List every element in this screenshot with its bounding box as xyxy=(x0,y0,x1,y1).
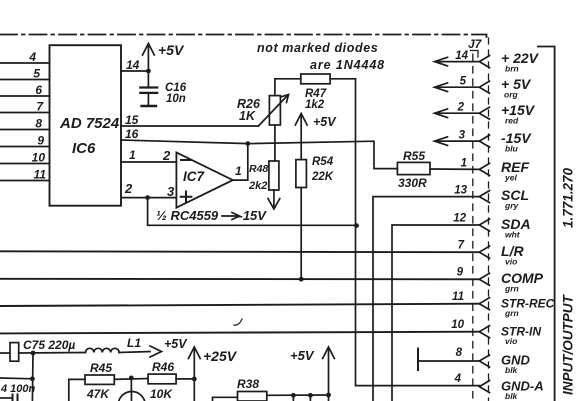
svg-text:R54: R54 xyxy=(312,156,334,168)
svg-text:4: 4 xyxy=(454,373,462,385)
svg-text:15: 15 xyxy=(125,113,139,127)
connector J7 dashed outline right xyxy=(488,38,490,401)
svg-text:C75 220µ: C75 220µ xyxy=(23,338,75,352)
svg-text:+5V: +5V xyxy=(290,348,315,363)
svg-text:1.771.270: 1.771.270 xyxy=(561,167,576,228)
wire data bus input pin6 xyxy=(0,95,50,97)
capacitor C75 electrolytic body xyxy=(10,343,19,362)
svg-text:2: 2 xyxy=(457,102,465,114)
resistor R48 xyxy=(269,161,279,190)
pen squiggle xyxy=(234,319,242,325)
J7 pin3 contact chevron xyxy=(479,135,489,147)
svg-text:R48: R48 xyxy=(249,163,268,175)
svg-text:13: 13 xyxy=(454,185,467,197)
power +5V arrow bottom xyxy=(328,349,330,401)
node junction 100n/vertical xyxy=(30,376,35,381)
node junction feedback/output xyxy=(245,141,250,146)
J7 pin14 contact chevron xyxy=(479,56,489,68)
node junction R54/COMP xyxy=(299,277,304,282)
svg-text:7: 7 xyxy=(458,240,465,252)
svg-text:12: 12 xyxy=(453,213,466,225)
node junction stub1 xyxy=(291,393,296,398)
node junction pin14/+5V/C16 xyxy=(146,69,151,74)
resistor R47 xyxy=(301,74,330,84)
J7 pin2 contact chevron xyxy=(479,107,489,119)
transistor Q circle xyxy=(118,392,145,401)
svg-text:11: 11 xyxy=(452,291,464,303)
wire R38 right to +5V xyxy=(267,394,329,396)
power +5V arrow above R54 xyxy=(300,115,302,160)
inductor L1 xyxy=(86,348,120,352)
wire L1 to +5V arrow xyxy=(119,352,150,353)
svg-text:3: 3 xyxy=(459,130,466,142)
svg-text:grn: grn xyxy=(504,284,519,294)
wire IC6 pin15 to R26 wiper xyxy=(121,125,258,127)
J7 pin9 contact chevron xyxy=(479,273,489,285)
svg-text:1: 1 xyxy=(235,164,242,178)
wire COMP bus line xyxy=(0,278,479,281)
power +5V arrow above C16 xyxy=(147,45,149,71)
wire GND stub with T-bar xyxy=(418,360,479,362)
J7 pin13 contact chevron xyxy=(479,191,489,203)
J7 pin5 +5V wire with arrow xyxy=(436,86,479,88)
J7 pin8 contact chevron xyxy=(479,355,489,367)
ground bar below C16 xyxy=(142,105,157,107)
power -15V arrow below R48 xyxy=(273,190,275,207)
capacitor C74 plates xyxy=(12,395,14,401)
J7 pin7 contact chevron xyxy=(479,246,489,258)
svg-text:3: 3 xyxy=(167,184,175,199)
IC U6 AD7524 body xyxy=(50,45,122,206)
svg-text:R55: R55 xyxy=(403,149,425,163)
svg-text:½ RC4559: ½ RC4559 xyxy=(156,208,219,223)
svg-text:vio: vio xyxy=(505,257,517,267)
wire stub2 down xyxy=(309,395,311,401)
resistor R38 xyxy=(238,392,267,401)
J7 pin5 contact chevron xyxy=(479,81,489,93)
svg-text:wht: wht xyxy=(505,230,521,240)
svg-text:5: 5 xyxy=(460,76,467,88)
op-amp minus sign xyxy=(181,159,191,161)
svg-text:1: 1 xyxy=(461,158,467,170)
wire data bus input pin8 xyxy=(0,129,50,131)
svg-text:R46: R46 xyxy=(152,360,174,374)
svg-text:10: 10 xyxy=(32,151,46,165)
wire R55 to J7 pin1 xyxy=(430,168,479,170)
node junction ground rail / GND-A vertical xyxy=(354,223,359,228)
svg-text:5: 5 xyxy=(33,67,40,81)
node junction stub2 xyxy=(308,393,313,398)
J7 pin12 contact chevron xyxy=(479,219,489,231)
wire data bus input pin10 xyxy=(0,163,50,165)
wire STR-REC bus line xyxy=(0,304,479,306)
op-amp plus sign xyxy=(181,192,192,203)
svg-text:blu: blu xyxy=(505,144,519,154)
svg-text:8: 8 xyxy=(456,347,463,359)
svg-text:14: 14 xyxy=(455,50,468,62)
svg-text:blk: blk xyxy=(505,391,519,401)
svg-text:gry: gry xyxy=(504,201,520,211)
svg-text:14: 14 xyxy=(126,58,140,72)
potentiometer R26 body xyxy=(269,96,280,125)
svg-text:AD 7524: AD 7524 xyxy=(59,115,120,132)
wire R38 left leg xyxy=(213,397,238,401)
J7 pin11 contact chevron xyxy=(479,298,489,310)
svg-text:10n: 10n xyxy=(166,93,186,105)
wire SDA vertical drop xyxy=(392,225,479,401)
wire 100n branch from left edge xyxy=(0,377,32,380)
svg-text:2: 2 xyxy=(162,148,171,163)
svg-text:+5V: +5V xyxy=(158,42,185,58)
resistor R55 xyxy=(397,162,430,174)
capacitor C16 xyxy=(140,86,157,88)
wire L/R bus line xyxy=(0,250,479,253)
J7 pin14 +22V wire with arrow xyxy=(436,61,479,63)
svg-text:1k2: 1k2 xyxy=(305,99,325,111)
svg-text:4: 4 xyxy=(28,50,36,64)
svg-text:are 1N4448: are 1N4448 xyxy=(310,58,385,72)
wire data bus input pin4 xyxy=(0,62,50,64)
J7 pin10 contact chevron xyxy=(479,326,489,338)
wire data bus input pin5 xyxy=(0,79,50,81)
svg-text:4 100n: 4 100n xyxy=(0,383,36,395)
svg-text:11: 11 xyxy=(34,168,47,182)
wire C16 to ground xyxy=(147,93,149,106)
connector J7 dashed outline left xyxy=(472,54,474,401)
svg-text:L1: L1 xyxy=(127,336,141,350)
svg-text:+5V: +5V xyxy=(164,337,188,351)
wire R46 to +25V vertical xyxy=(176,378,194,380)
svg-text:47K: 47K xyxy=(86,387,110,401)
resistor R45 xyxy=(85,375,114,384)
svg-text:10: 10 xyxy=(451,319,464,331)
resistor R54 xyxy=(296,160,307,188)
svg-text:10K: 10K xyxy=(150,387,173,401)
J7 pin4 contact chevron xyxy=(479,381,489,393)
svg-text:not marked diodes: not marked diodes xyxy=(257,41,378,55)
svg-text:7: 7 xyxy=(36,100,44,114)
wire +5V node down to C16 xyxy=(147,71,149,87)
J7 pin1 contact chevron xyxy=(479,163,489,175)
svg-text:8: 8 xyxy=(35,117,42,131)
node junction R46/+25V xyxy=(192,377,197,382)
J7 pin2 +15V wire with arrow xyxy=(436,112,479,114)
svg-text:1K: 1K xyxy=(239,109,256,123)
frame border dash-dot top xyxy=(0,35,487,41)
svg-text:330R: 330R xyxy=(398,176,427,190)
svg-text:red: red xyxy=(505,116,519,126)
wire data bus input pin9 xyxy=(0,146,50,148)
node junction C75/L1/vertical xyxy=(31,351,36,356)
potentiometer R26 wiper arrow xyxy=(258,96,287,126)
wire data bus input pin7 xyxy=(0,112,50,114)
wire data bus input pin11 xyxy=(0,180,50,182)
node junction R45/R46/Q base xyxy=(129,376,134,381)
wire R45 to R46 xyxy=(114,378,148,381)
svg-text:-15V: -15V xyxy=(239,208,268,223)
wire stub1 down xyxy=(292,395,294,401)
svg-text:R45: R45 xyxy=(90,361,112,375)
wire vertical from C75 node down xyxy=(31,353,34,401)
wire IC6 pin14 to +5V node xyxy=(121,70,148,72)
wire R26 top to R47 left xyxy=(275,79,301,96)
node junction pin2/ground rail xyxy=(145,195,150,200)
svg-text:yel: yel xyxy=(504,173,517,183)
svg-text:R38: R38 xyxy=(237,377,259,391)
svg-text:9: 9 xyxy=(37,134,44,148)
svg-text:+25V: +25V xyxy=(203,348,238,364)
op-amp U7 triangle xyxy=(176,153,232,208)
svg-text:blk: blk xyxy=(505,365,519,375)
svg-text:brn: brn xyxy=(505,64,519,74)
wire analog-ground vertical (R47 to GND-A) xyxy=(356,79,480,386)
svg-text:6: 6 xyxy=(35,83,42,97)
wire IC6 pin16 feedback line xyxy=(121,140,248,144)
svg-text:2: 2 xyxy=(124,181,133,196)
svg-text:IC6: IC6 xyxy=(72,140,96,157)
svg-text:22K: 22K xyxy=(311,171,334,183)
svg-text:1: 1 xyxy=(129,148,136,162)
wire C75 to L1 xyxy=(19,352,86,355)
bracket INPUT/OUTPUT group xyxy=(538,47,555,401)
capacitor C75 wire from left xyxy=(0,352,10,354)
wire STR-IN bus line xyxy=(0,332,479,334)
svg-text:2k2: 2k2 xyxy=(248,180,267,192)
wire node to transistor xyxy=(130,378,132,401)
svg-text:IC7: IC7 xyxy=(183,169,206,184)
wire SCL vertical drop xyxy=(373,197,479,401)
svg-text:org: org xyxy=(504,90,519,100)
wire IC6 pin1 OUT1 to IC7 inverting input xyxy=(121,161,176,163)
wire feedback line to REF drop xyxy=(248,141,398,168)
J7 pin3 -15V wire with arrow xyxy=(436,140,479,142)
wire R47 right to analog ground vertical xyxy=(330,78,355,80)
power +5V arrow right xyxy=(150,346,162,357)
resistor R46 xyxy=(148,374,176,384)
svg-text:+5V: +5V xyxy=(313,115,337,129)
wire R54 bottom to COMP line xyxy=(300,188,302,280)
svg-text:9: 9 xyxy=(457,267,464,279)
svg-text:vio: vio xyxy=(505,336,517,346)
svg-text:grn: grn xyxy=(504,308,519,318)
svg-text:16: 16 xyxy=(125,127,139,141)
wire IC7 output to feedback node xyxy=(233,144,248,181)
wire R26 bottom down to R48 top xyxy=(274,125,276,161)
svg-text:INPUT/OUTPUT: INPUT/OUTPUT xyxy=(561,293,576,395)
wire IC6 pin2 OUT2 to IC7 non-inverting input xyxy=(121,197,176,199)
wire R45 left leg xyxy=(69,379,85,401)
arrow to -15V note xyxy=(222,215,238,217)
node junction +5V corner xyxy=(326,393,331,398)
power +25V arrow xyxy=(193,349,195,401)
wire ground rail from pin3 node xyxy=(148,198,357,226)
svg-text:J7: J7 xyxy=(468,37,483,51)
wire left edge to C74 xyxy=(0,397,13,399)
